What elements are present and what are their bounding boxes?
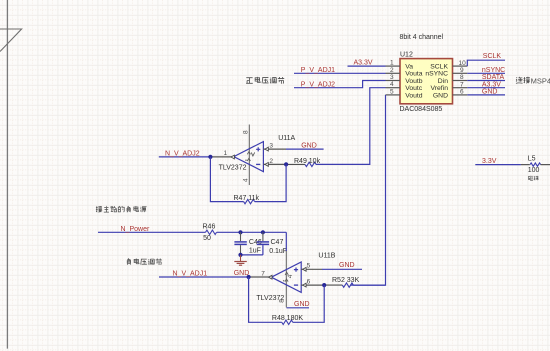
pin 1 arrow glyph: [231, 155, 234, 159]
svg-text:4: 4: [390, 81, 394, 88]
resistor R46: [206, 230, 217, 234]
plus sign: [294, 268, 298, 272]
svg-text:50: 50: [203, 235, 211, 242]
wire GND right: [467, 94, 505, 96]
svg-text:7: 7: [460, 81, 464, 88]
wire nSYNC: [467, 72, 505, 74]
svg-text:0.1uF: 0.1uF: [269, 248, 287, 255]
capacitor C46: [240, 232, 242, 241]
svg-text:N_Power: N_Power: [121, 226, 150, 233]
svg-text:3.3V: 3.3V: [482, 158, 497, 165]
wire P_V_ADJ2 to pin3: [294, 81, 386, 88]
op-amp U11A triangle: [234, 142, 264, 172]
svg-text:U12: U12: [400, 52, 413, 59]
svg-text:R49 10k: R49 10k: [294, 158, 321, 165]
svg-text:4: 4: [243, 178, 250, 182]
svg-text:P_V_ADJ2: P_V_ADJ2: [301, 81, 335, 88]
svg-text:U11A: U11A: [278, 135, 295, 142]
rotated pin number 4: [243, 178, 250, 182]
wire SDATA: [467, 80, 505, 82]
inductor L5 lead right: [541, 164, 550, 166]
pin 10: [453, 65, 468, 67]
feedback loop R48: [249, 277, 282, 322]
svg-text:6: 6: [460, 89, 464, 96]
svg-text:nSYNC: nSYNC: [425, 71, 448, 78]
svg-text:Vrefin: Vrefin: [430, 85, 448, 92]
svg-text:R47 11k: R47 11k: [234, 195, 260, 202]
svg-text:7: 7: [261, 270, 265, 277]
pin 5: [386, 94, 401, 96]
ground symbol: [240, 255, 242, 261]
resistor R52: [342, 283, 353, 287]
svg-text:Vouta: Vouta: [405, 71, 423, 78]
svg-text:4: 4: [287, 274, 294, 278]
wire P_V_ADJ1 to pin2: [294, 72, 386, 74]
svg-text:100: 100: [528, 167, 540, 174]
minus sign: [294, 284, 298, 286]
svg-text:DAC084S085: DAC084S085: [400, 106, 443, 113]
svg-text:GND: GND: [301, 143, 317, 150]
svg-text:R48 180K: R48 180K: [272, 315, 303, 322]
svg-text:P_V_ADJ1: P_V_ADJ1: [301, 67, 335, 74]
pin 5 line: [301, 268, 322, 270]
svg-text:Voutc: Voutc: [405, 85, 423, 92]
svg-text:N_V_ADJ1: N_V_ADJ1: [173, 271, 208, 278]
feedback loop R47: [210, 157, 243, 202]
junction cap bottom: [238, 253, 242, 257]
svg-text:2: 2: [390, 67, 394, 74]
wire N_Power: [98, 231, 206, 233]
svg-text:9: 9: [460, 67, 464, 74]
svg-text:SCLK: SCLK: [430, 64, 448, 71]
pin 6 arrow glyph: [303, 283, 306, 287]
GND stub below U11B: [287, 307, 310, 309]
annotation 正电压调节: [246, 77, 284, 84]
resistor R48: [282, 320, 293, 324]
junction pin6 U11B: [322, 283, 326, 287]
svg-text:GND: GND: [433, 92, 448, 99]
pin 3: [386, 80, 401, 82]
svg-text:A3.3V: A3.3V: [482, 81, 501, 88]
interior chevron marks: [247, 152, 255, 161]
wire R48 to pin6: [293, 285, 324, 322]
wire 3.3V: [475, 164, 521, 166]
wire pin4 down to R49: [316, 88, 386, 165]
svg-text:6: 6: [307, 279, 311, 286]
power pin line U11A: [248, 125, 250, 186]
wire to U11B power pin: [285, 232, 287, 251]
wire pin5 down to R52: [350, 95, 386, 285]
svg-text:1: 1: [390, 60, 394, 67]
svg-text:3: 3: [390, 74, 394, 81]
pin 5 arrow glyph: [303, 267, 306, 271]
pin 9: [453, 72, 468, 74]
pin 8: [453, 80, 468, 82]
svg-text:R46: R46: [203, 224, 216, 231]
svg-text:8: 8: [460, 74, 464, 81]
wire N_V_ADJ1: [159, 276, 249, 278]
op-amp U11B triangle: [271, 262, 301, 292]
wire cap bottoms: [241, 254, 263, 256]
junction C46 top: [238, 230, 242, 234]
svg-text:GND: GND: [339, 262, 355, 269]
rotated pin number 8: [279, 299, 286, 303]
svg-text:GND: GND: [482, 89, 498, 96]
svg-text:TLV2372: TLV2372: [219, 164, 247, 171]
svg-text:1: 1: [224, 150, 228, 157]
annotation 接主路的负电源: [96, 206, 147, 212]
label 磁珠: [528, 176, 539, 180]
wire R47 to pin2: [255, 164, 287, 201]
svg-text:U11B: U11B: [318, 252, 335, 259]
wire R52 segment: [324, 284, 342, 286]
IC U12 body: [400, 59, 453, 104]
svg-text:8: 8: [243, 130, 250, 134]
annotation 连接MSP430: [516, 77, 530, 84]
pin 7 arrow glyph: [269, 275, 272, 279]
annotation 负电压调节: [127, 258, 162, 265]
junction output U11B: [247, 275, 251, 279]
svg-text:5: 5: [307, 263, 311, 270]
pin 7: [453, 87, 468, 89]
capacitor C47: [262, 232, 264, 241]
plus sign: [256, 147, 260, 151]
pin 1: [386, 65, 401, 67]
junction output U11A: [208, 155, 212, 159]
svg-text:10: 10: [459, 60, 467, 67]
svg-text:8bit 4 channel: 8bit 4 channel: [400, 34, 444, 41]
wire SCLK: [467, 60, 505, 66]
svg-text:Va: Va: [405, 64, 413, 71]
wire GND at pin3: [286, 148, 324, 150]
off-sheet connector flag: [0, 29, 22, 52]
power pin line U11B: [285, 251, 287, 307]
pin 3 arrow glyph: [265, 147, 268, 151]
wire A3.3V to pin1: [348, 65, 386, 67]
svg-text:3: 3: [269, 143, 273, 150]
svg-text:1uF: 1uF: [249, 248, 261, 255]
pin 2 line: [263, 163, 286, 165]
resistor R49: [305, 162, 316, 166]
resistor R47: [244, 199, 255, 203]
inductor L5 zigzag: [530, 163, 540, 166]
svg-text:Voutd: Voutd: [405, 92, 423, 99]
pin 6: [453, 94, 468, 96]
svg-text:GND: GND: [294, 301, 310, 308]
svg-text:SDATA: SDATA: [482, 74, 505, 81]
wire R46 to power pin: [217, 231, 287, 233]
junction pin2 U11A: [284, 162, 288, 166]
svg-text:Voutb: Voutb: [405, 78, 423, 85]
svg-text:Din: Din: [438, 78, 448, 85]
svg-text:SCLK: SCLK: [483, 53, 502, 60]
svg-text:N_V_ADJ2: N_V_ADJ2: [165, 151, 200, 158]
inductor L5 lead left: [521, 164, 530, 166]
wire A3.3V right: [467, 87, 505, 89]
minus sign: [256, 163, 260, 165]
svg-text:L5: L5: [528, 156, 536, 163]
wire N_V_ADJ2: [159, 156, 211, 158]
pin 7 output line: [249, 276, 272, 278]
pin 2 arrow glyph: [265, 163, 268, 167]
wire GND at pin5: [322, 268, 362, 270]
svg-text:A3.3V: A3.3V: [354, 60, 373, 67]
wire R52 to vertical: [353, 284, 385, 286]
pin 1 output line: [210, 156, 233, 158]
pin 4: [386, 87, 401, 89]
svg-text:2: 2: [269, 158, 273, 165]
junction C47 top: [261, 230, 265, 234]
interior chevron marks: [285, 272, 288, 281]
sheet border line: [6, 0, 8, 349]
pin 6 line: [301, 284, 324, 286]
pin 3 line: [263, 148, 286, 150]
svg-text:TLV2372: TLV2372: [256, 295, 284, 302]
rotated pin number 8: [243, 130, 250, 134]
pin 2: [386, 72, 401, 74]
wire R49 segment: [286, 163, 305, 165]
svg-text:MSP430: MSP430: [531, 77, 550, 86]
svg-text:C47: C47: [271, 239, 284, 246]
svg-text:R52 33K: R52 33K: [332, 277, 360, 284]
svg-text:nSYNC: nSYNC: [482, 67, 505, 74]
svg-text:5: 5: [390, 88, 394, 95]
